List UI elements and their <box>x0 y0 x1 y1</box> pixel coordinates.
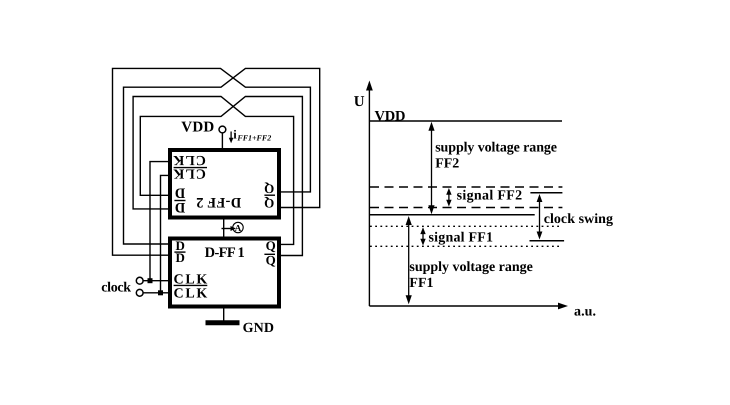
svg-text:D: D <box>175 185 185 201</box>
clock terminal bottom <box>136 289 143 296</box>
wire loop3 FF2-Dbar to FF1-Q <box>133 97 294 245</box>
graph VDD level line <box>369 120 562 122</box>
svg-text:A: A <box>235 223 242 233</box>
svg-text:Q: Q <box>264 181 274 196</box>
graph Y axis U <box>368 88 370 306</box>
ground symbol <box>206 320 240 325</box>
solid clock upper level line <box>369 214 534 216</box>
svg-text:VDD: VDD <box>181 120 214 136</box>
wire FF2 to ammeter node <box>223 218 225 237</box>
clock terminal top <box>136 277 143 284</box>
svg-text:D: D <box>176 250 185 265</box>
FF2 D overline <box>174 200 185 202</box>
svg-text:CLK: CLK <box>173 152 206 167</box>
svg-text:Q: Q <box>266 253 276 268</box>
graph X axis a.u. <box>369 305 560 307</box>
wire loop2 FF1-D to FF2 lower-right pin <box>124 68 320 244</box>
svg-text:FF2: FF2 <box>435 156 459 171</box>
svg-text:D: D <box>175 199 185 215</box>
ammeter A1 arrowhead <box>231 226 237 231</box>
svg-text:FF1+FF2: FF1+FF2 <box>236 133 271 142</box>
FF1 D overline <box>174 251 185 253</box>
svg-text:a.u.: a.u. <box>574 304 596 319</box>
dashed line upper rail signal FF2 <box>370 186 562 188</box>
svg-text:signal FF1: signal FF1 <box>429 230 494 245</box>
svg-text:clock: clock <box>101 280 131 295</box>
arrow signal FF1 <box>420 227 425 245</box>
svg-text:signal FF2: signal FF2 <box>457 189 522 204</box>
junction clock bottom <box>158 290 163 295</box>
current arrow i_FF1+FF2 <box>229 128 271 144</box>
wire clock to FF2 CLKbar <box>161 175 169 292</box>
wire VDD to FF2 <box>221 133 223 149</box>
ammeter A1 circle <box>233 222 243 232</box>
svg-text:U: U <box>354 94 365 110</box>
svg-text:Q: Q <box>264 196 274 211</box>
svg-text:VDD: VDD <box>375 108 406 124</box>
svg-text:supply voltage range: supply voltage range <box>435 141 557 156</box>
junction clock top <box>148 278 153 283</box>
svg-text:CLK: CLK <box>174 286 208 301</box>
arrow signal FF2 <box>446 188 451 207</box>
wire loop1 FF1-Dbar to FF2 upper-right pin <box>113 68 311 255</box>
wire loop4 FF2-D to FF1-Qbar <box>140 97 302 256</box>
D-flip-flop U2 box (D-FF 2, drawn rotated 180deg) <box>170 150 279 218</box>
svg-text:GND: GND <box>243 321 274 336</box>
FF1 Q overline <box>264 253 275 255</box>
svg-text:FF1: FF1 <box>409 276 433 291</box>
svg-text:D-FF 1: D-FF 1 <box>205 245 245 261</box>
wire FF1 to ground <box>223 307 225 322</box>
VDD terminal circle <box>219 126 226 133</box>
arrow supply voltage range FF1 <box>406 216 412 304</box>
wire clock to FF2 CLK <box>150 162 169 281</box>
wire clock bottom to FF1 CLKbar <box>143 292 168 294</box>
arrow supply voltage range FF2 <box>428 122 434 214</box>
arrow clock swing <box>537 194 543 240</box>
svg-text:supply voltage range: supply voltage range <box>409 260 532 275</box>
D-flip-flop U1 box (D-FF 1) <box>170 239 279 307</box>
wire clock top to FF1 CLK <box>143 280 168 282</box>
dotted line lower rail signal FF1 <box>370 245 560 247</box>
dashed line lower rail signal FF2 <box>370 207 562 209</box>
FF2 CLK overline <box>174 167 207 169</box>
dotted line upper rail signal FF1 <box>370 225 560 227</box>
clock swing bottom marker <box>530 240 565 242</box>
svg-text:CLK: CLK <box>173 166 206 181</box>
svg-text:D-FF 2: D-FF 2 <box>196 194 241 210</box>
ammeter A1 branch wire <box>222 228 233 230</box>
svg-text:clock swing: clock swing <box>544 212 613 227</box>
FF1 CLK overline <box>174 284 208 286</box>
svg-text:Q: Q <box>266 238 276 253</box>
FF2 Q overline <box>264 194 275 196</box>
clock swing top marker <box>530 192 562 194</box>
